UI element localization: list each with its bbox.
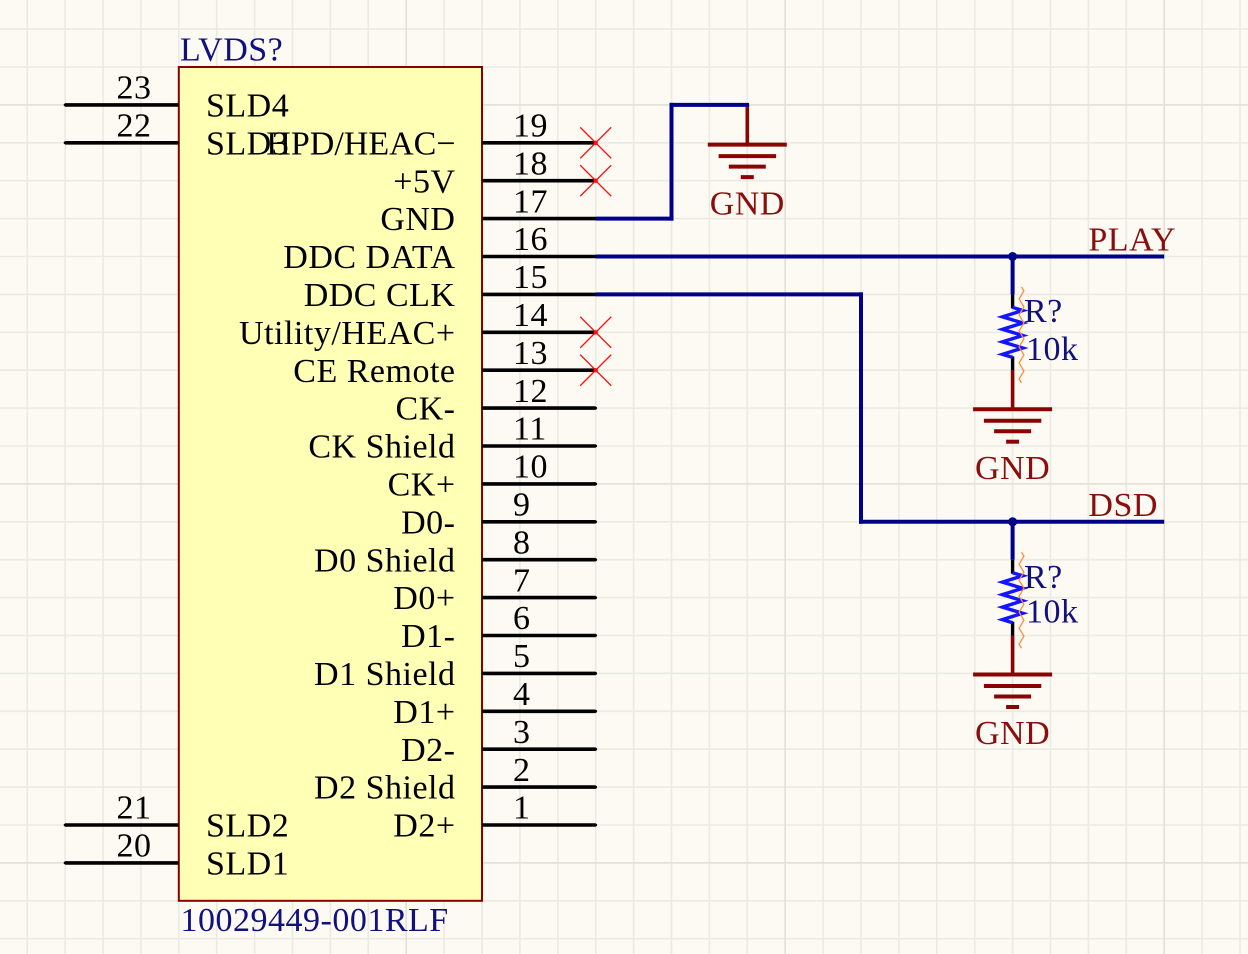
pin 5 (D1 Shield)	[314, 638, 597, 693]
svg-text:19: 19	[513, 108, 548, 145]
pin 18 (+5V)	[393, 145, 597, 200]
wire DSD net lower horizontal	[859, 520, 1164, 524]
svg-text:20: 20	[117, 828, 152, 865]
svg-text:Utility/HEAC+: Utility/HEAC+	[239, 315, 455, 352]
svg-text:GND: GND	[380, 201, 455, 238]
svg-text:2: 2	[513, 752, 531, 789]
svg-text:8: 8	[513, 524, 531, 561]
pin 7 (D0+)	[393, 562, 597, 617]
svg-text:10029449-001RLF: 10029449-001RLF	[181, 902, 449, 939]
svg-text:SLD1: SLD1	[206, 846, 289, 883]
svg-text:D1-: D1-	[401, 618, 455, 655]
svg-text:DSD: DSD	[1088, 487, 1158, 524]
svg-text:10k: 10k	[1026, 594, 1079, 631]
svg-text:PLAY: PLAY	[1088, 221, 1176, 258]
svg-text:SLD2: SLD2	[206, 808, 289, 845]
wire PLAY net (pin 16)	[596, 255, 1164, 259]
svg-text:6: 6	[513, 600, 531, 637]
svg-text:D0 Shield: D0 Shield	[314, 542, 455, 579]
svg-text:18: 18	[513, 145, 548, 182]
pin 6 (D1-)	[401, 600, 597, 655]
svg-text:GND: GND	[710, 185, 785, 222]
svg-text:D2-: D2-	[401, 732, 455, 769]
pin 16 (DDC DATA)	[283, 221, 597, 276]
svg-text:D2+: D2+	[393, 808, 455, 845]
junction DSD/R2	[1008, 517, 1017, 526]
svg-text:21: 21	[117, 790, 152, 827]
svg-text:SLD3: SLD3	[206, 125, 289, 162]
svg-text:3: 3	[513, 714, 531, 751]
svg-text:GND: GND	[975, 715, 1050, 752]
svg-text:GND: GND	[975, 450, 1050, 487]
pin 13 (CE Remote)	[293, 335, 597, 390]
no-connect X on pin 14	[580, 317, 611, 348]
svg-text:D1+: D1+	[393, 694, 455, 731]
svg-text:LVDS?: LVDS?	[180, 31, 283, 68]
wire junction to R1	[1011, 257, 1015, 295]
pin 15 (DDC CLK)	[304, 259, 597, 314]
svg-text:DDC DATA: DDC DATA	[283, 239, 455, 276]
svg-text:13: 13	[513, 335, 548, 372]
svg-text:R?: R?	[1024, 293, 1063, 330]
pin 19 (HPD/HEAC−)	[266, 108, 597, 163]
svg-text:D0-: D0-	[401, 504, 455, 541]
svg-text:23: 23	[117, 70, 152, 107]
net label DSD	[1088, 487, 1158, 524]
net label PLAY	[1088, 221, 1176, 258]
pin 12 (CK-)	[395, 373, 597, 428]
no-connect X on pin 19	[580, 127, 611, 158]
value 10k (R1)	[1026, 331, 1079, 368]
svg-text:12: 12	[513, 373, 548, 410]
no-connect X on pin 18	[580, 165, 611, 196]
pin 17 (GND)	[380, 183, 597, 238]
wire DSD net pin15 horizontal	[596, 292, 863, 296]
svg-text:16: 16	[513, 221, 548, 258]
svg-text:10k: 10k	[1026, 331, 1079, 368]
part number 10029449-001RLF	[181, 902, 449, 939]
svg-text:4: 4	[513, 676, 531, 713]
svg-text:10: 10	[513, 449, 548, 486]
error squiggle R2	[1019, 552, 1024, 648]
ground GND (under R2)	[973, 636, 1052, 753]
resistor R2 10k	[1002, 560, 1022, 636]
svg-text:11: 11	[513, 411, 547, 448]
svg-text:CE Remote: CE Remote	[293, 353, 455, 390]
pin 1 (D2+)	[393, 790, 597, 845]
pin 10 (CK+)	[388, 449, 598, 504]
ground GND (under R1)	[973, 370, 1052, 487]
pin 9 (D0-)	[401, 487, 597, 542]
pin 14 (Utility/HEAC+)	[239, 297, 597, 352]
designator R? (R1)	[1024, 293, 1063, 330]
pin 2 (D2 Shield)	[314, 752, 597, 807]
svg-text:9: 9	[513, 487, 531, 524]
svg-text:D0+: D0+	[393, 580, 455, 617]
designator LVDS?	[180, 31, 283, 68]
ground GND (top)	[708, 105, 787, 222]
designator R? (R2)	[1024, 559, 1063, 596]
svg-text:D2 Shield: D2 Shield	[314, 770, 455, 807]
svg-text:DDC CLK: DDC CLK	[304, 277, 456, 314]
wire GND net top horizontal	[670, 103, 750, 107]
svg-text:CK+: CK+	[388, 467, 456, 504]
svg-text:CK Shield: CK Shield	[308, 429, 455, 466]
pin 21 (SLD2)	[64, 790, 290, 845]
pin 4 (D1+)	[393, 676, 597, 731]
wire DSD net vertical	[859, 292, 863, 523]
pin 8 (D0 Shield)	[314, 524, 597, 579]
svg-text:R?: R?	[1024, 559, 1063, 596]
connector J? body (10029449-001RLF)	[179, 67, 482, 901]
pin 11 (CK Shield)	[308, 411, 597, 466]
svg-text:15: 15	[513, 259, 548, 296]
svg-text:SLD4: SLD4	[206, 88, 289, 125]
resistor R1 10k	[1002, 294, 1022, 370]
pin 20 (SLD1)	[64, 828, 290, 883]
svg-text:1: 1	[513, 790, 531, 827]
svg-text:+5V: +5V	[393, 163, 455, 200]
no-connect X on pin 13	[580, 355, 611, 386]
svg-text:HPD/HEAC−: HPD/HEAC−	[266, 125, 455, 162]
junction PLAY/R1	[1008, 252, 1017, 261]
svg-text:22: 22	[117, 108, 152, 145]
svg-text:5: 5	[513, 638, 531, 675]
wire pin17 to GND (horizontal)	[596, 217, 674, 221]
error squiggle R1	[1019, 287, 1024, 383]
svg-text:D1 Shield: D1 Shield	[314, 656, 455, 693]
svg-text:7: 7	[513, 562, 531, 599]
wire GND net vertical	[670, 103, 674, 221]
value 10k (R2)	[1026, 594, 1079, 631]
svg-text:14: 14	[513, 297, 548, 334]
pin 3 (D2-)	[401, 714, 597, 769]
svg-text:CK-: CK-	[395, 391, 455, 428]
svg-text:17: 17	[513, 183, 548, 220]
pin 23 (SLD4)	[64, 70, 290, 125]
pin 22 (SLD3)	[64, 108, 290, 163]
wire junction to R2	[1011, 522, 1015, 560]
